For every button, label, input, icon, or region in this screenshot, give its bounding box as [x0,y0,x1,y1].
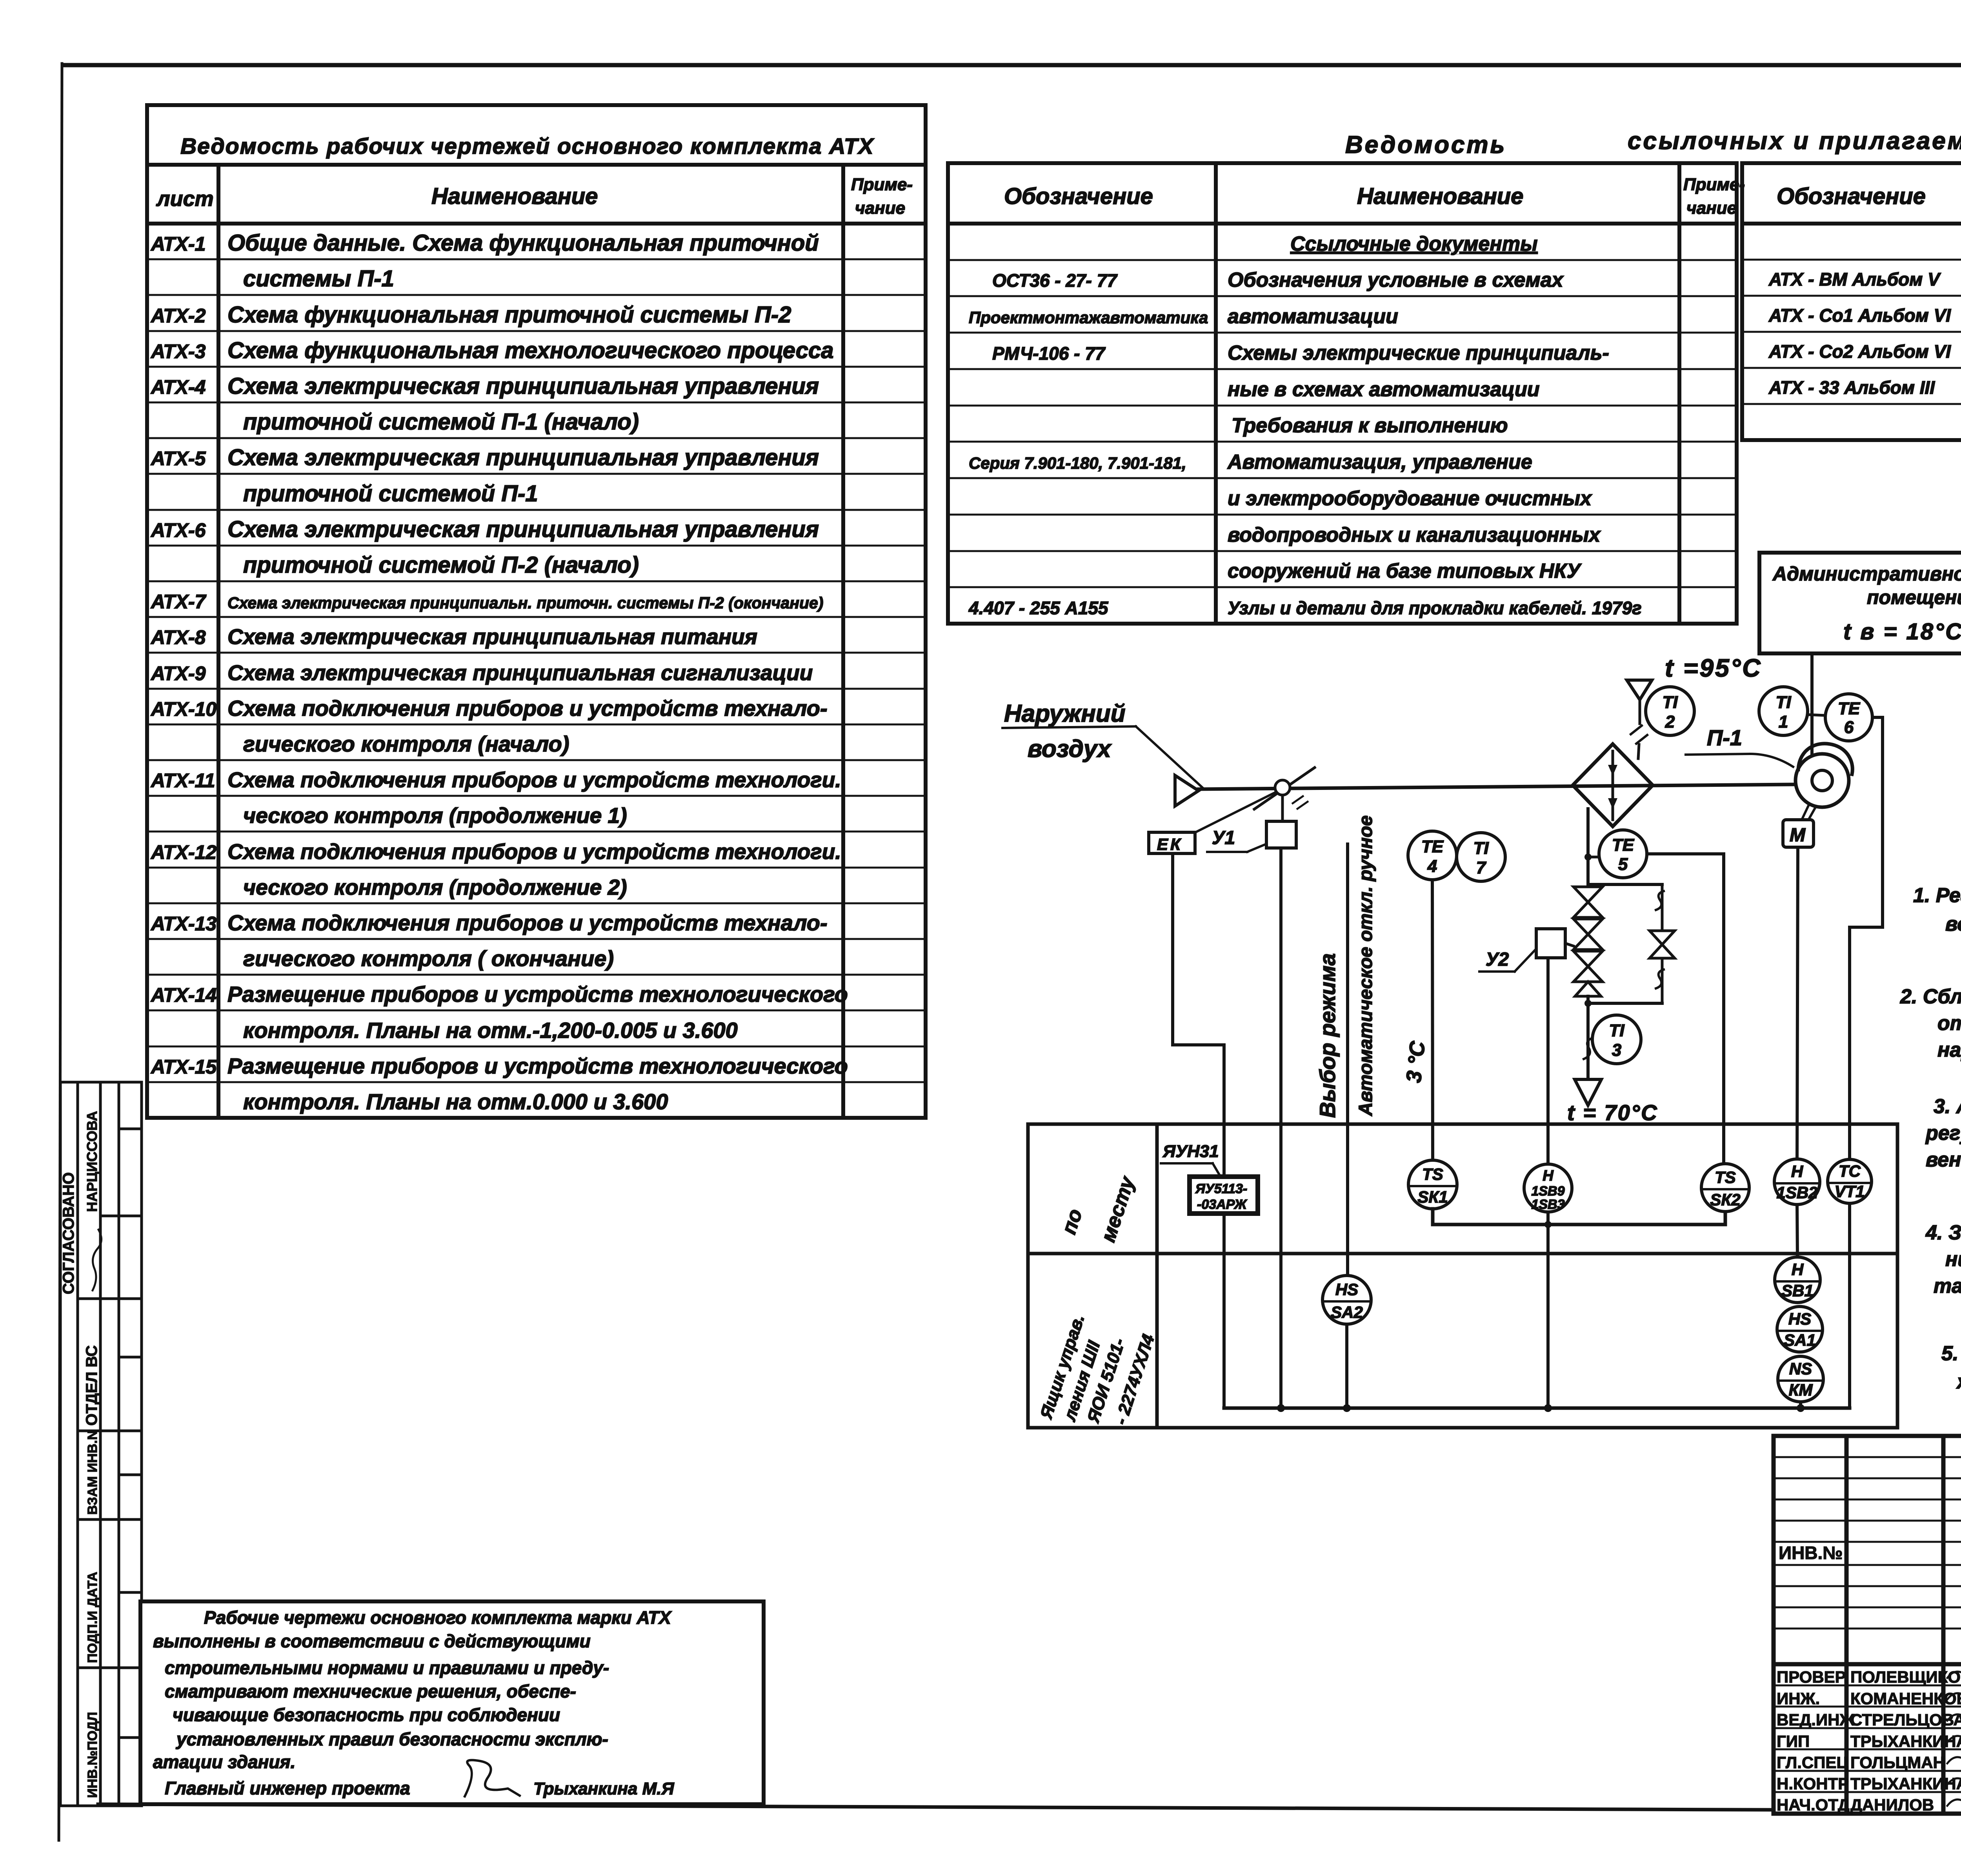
damper with hinge circle [1254,768,1315,809]
instrument TE6 [1825,694,1872,741]
svg-text:открытие (закрытие) засло: открытие (закрытие) заслонки [1937,1012,1961,1035]
svg-text:SА1: SА1 [1784,1331,1816,1349]
svg-text:системы П-1: системы П-1 [243,266,394,291]
svg-text:чание: чание [855,198,905,218]
svg-text:3 °С: 3 °С [1402,1040,1430,1084]
svg-text:4. Защита калорифера от за: 4. Защита калорифера от заморажива- [1925,1221,1961,1244]
sensor box EK [1149,832,1195,853]
svg-text:регулирования при включении: регулирования при включении приточного [1925,1122,1961,1145]
wire U2 down [1546,958,1550,1164]
actuator box U2 [1536,929,1565,958]
valve bottom arrow [1575,982,1601,996]
svg-text:М: М [1790,825,1806,846]
svg-text:приточной системой П-1 (на: приточной системой П-1 (начало) [243,409,639,435]
valve V2 [1574,919,1603,934]
svg-text:Схема подключения приборов: Схема подключения приборов и устройств т… [227,839,841,864]
instrument TI3 [1592,1015,1641,1064]
svg-text:ные в схемах автоматизации: ные в схемах автоматизации [1228,378,1540,401]
svg-text:чание: чание [1686,198,1737,218]
svg-text:КОМАНЕНКОВА: КОМАНЕНКОВА [1850,1689,1961,1708]
svg-text:гического контроля ( окончан: гического контроля ( окончание) [243,946,614,971]
title block frame [1774,1436,1961,1814]
svg-text:3: 3 [1612,1041,1621,1060]
svg-text:1: 1 [1779,712,1788,731]
wire TE5 to SK2 drop [1647,854,1724,1164]
svg-text:Рабочие чертежи основного к: Рабочие чертежи основного комплекта марк… [204,1607,672,1628]
svg-text:АТХ - ВМ Альбом V: АТХ - ВМ Альбом V [1768,269,1941,289]
instrument TE4 [1408,831,1457,880]
svg-text:ЯУН31: ЯУН31 [1162,1142,1219,1161]
svg-text:Схема функциональная технологи: Схема функциональная технологического пр… [227,338,834,363]
svg-text:ГЛ.СПЕЦ: ГЛ.СПЕЦ [1777,1753,1848,1772]
svg-text:Административно - бытовые: Административно - бытовые [1772,563,1961,585]
svg-text:5. Среда помещений невзры: 5. Среда помещений невзрыво - и непо- [1941,1342,1961,1365]
svg-text:воздух: воздух [1028,735,1112,762]
svg-text:АТХ-11: АТХ-11 [150,770,215,792]
wire M down [1797,847,1798,1159]
svg-text:5: 5 [1618,855,1628,874]
svg-text:ИНЖ.: ИНЖ. [1777,1689,1820,1708]
svg-text:АТХ-2: АТХ-2 [150,305,206,327]
svg-text:t = 70°С: t = 70°С [1567,1100,1658,1125]
svg-text:ВЕД.ИНЖ: ВЕД.ИНЖ [1777,1710,1855,1729]
svg-text:гического контроля (начало): гического контроля (начало) [243,731,569,756]
svg-text:SА2: SА2 [1331,1303,1363,1321]
wire manifold bottom [1588,1002,1662,1005]
drain triangle down [1575,1079,1601,1105]
valve V3 [1574,951,1603,966]
svg-text:Схема подключения приборов: Схема подключения приборов и устройств т… [227,910,828,935]
svg-text:выполнены в соответствии с: выполнены в соответствии с действующими [153,1631,591,1651]
wire mode selection vertical [1346,844,1349,1276]
svg-text:ЕК: ЕК [1157,835,1183,853]
instrument TS SK1 [1408,1160,1457,1209]
svg-text:У1: У1 [1212,828,1235,848]
instrument TE5 [1599,830,1647,878]
svg-text:ТІ: ТІ [1609,1021,1624,1040]
svg-text:ГОЛЬЦМАН: ГОЛЬЦМАН [1850,1753,1945,1772]
svg-text:Проектмонтажавтоматика: Проектмонтажавтоматика [969,308,1208,327]
svg-text:-03АРЖ: -03АРЖ [1197,1197,1248,1212]
svg-text:контроля. Планы на отм.0.: контроля. Планы на отм.0.000 и 3.600 [243,1089,668,1114]
svg-text:ТРЫХАНКИНА: ТРЫХАНКИНА [1850,1732,1961,1750]
svg-text:6: 6 [1844,718,1854,737]
svg-text:4: 4 [1427,857,1437,876]
svg-text:Наружний: Наружний [1004,700,1126,727]
instrument TS SK2 [1701,1164,1749,1212]
motor box M [1783,820,1814,847]
sheet frame left line [59,64,62,1840]
svg-text:установленных правил безопа: установленных правил безопасности эксплю… [176,1729,608,1749]
svg-text:4.407 - 255 А155: 4.407 - 255 А155 [968,598,1109,618]
svg-text:Ведомость: Ведомость [1345,131,1506,158]
svg-text:ИНВ.№ПОДЛ: ИНВ.№ПОДЛ [85,1712,100,1798]
svg-text:Н: Н [1543,1168,1554,1184]
svg-text:НАЧ.ОТД: НАЧ.ОТД [1777,1796,1850,1814]
svg-text:Трыханкина М.Я: Трыханкина М.Я [533,1779,674,1798]
wire admin box down to fan [1810,653,1814,757]
link fan to motor [1802,805,1809,820]
svg-text:АТХ-8: АТХ-8 [150,626,206,648]
svg-text:контроля. Планы на отм.-1,20: контроля. Планы на отм.-1,200-0.005 и 3.… [243,1018,738,1043]
box administrative rooms [1759,553,1961,653]
wire bottom bus [1224,1407,1850,1410]
svg-text:Схема электрическая принципи: Схема электрическая принципиальная сигна… [227,661,813,685]
svg-text:Схема подключения приборов: Схема подключения приборов и устройств т… [227,768,841,792]
instrument HS SA2 [1322,1276,1371,1324]
svg-text:ДАНИЛОВ: ДАНИЛОВ [1850,1796,1934,1814]
svg-text:НS: НS [1335,1280,1358,1299]
svg-text:АТХ - Со1 Альбом VI: АТХ - Со1 Альбом VI [1768,305,1951,326]
svg-text:Серия 7.901-180, 7.901-181,: Серия 7.901-180, 7.901-181, [969,454,1186,472]
svg-text:1SВ9: 1SВ9 [1531,1184,1564,1199]
svg-text:1SВ2: 1SВ2 [1776,1183,1817,1202]
svg-text:Схема электрическая принципиал: Схема электрическая принципиальн. приточ… [227,594,823,612]
svg-text:сматривают технические реш: сматривают технические решения, обеспе- [165,1681,576,1701]
instrument HS SA1 [1777,1306,1823,1352]
svg-text:АТХ-7: АТХ-7 [150,591,207,613]
svg-text:VТ1: VТ1 [1834,1182,1865,1201]
svg-text:2: 2 [1665,712,1675,731]
wire duct line [1199,784,1795,789]
svg-text:наружного воздуха.: наружного воздуха. [1937,1039,1961,1061]
wire heater supply from exchanger [1586,809,1590,884]
instrument H SB1 [1775,1257,1820,1303]
svg-text:ссылочных и прилагаемых док: ссылочных и прилагаемых документов [1628,127,1961,155]
wire H down through link [1546,1212,1550,1408]
svg-text:приточной системой П-1: приточной системой П-1 [243,481,538,506]
svg-text:Обозначения условные в схема: Обозначения условные в схемах [1228,269,1564,291]
leader damper to EK [1194,792,1275,833]
wire manifold top [1588,883,1662,886]
svg-text:ПОЛЕВЩИКОВА: ПОЛЕВЩИКОВА [1850,1668,1961,1686]
instrument NS KM [1778,1356,1823,1402]
wire TE6 right and down with jog [1850,717,1883,1159]
svg-text:РМЧ-106 - 77: РМЧ-106 - 77 [992,343,1106,364]
svg-text:сооружений на базе типовых Н: сооружений на базе типовых НКУ [1228,560,1582,582]
svg-text:Схема электрическая принципи: Схема электрическая принципиальная управ… [227,373,819,399]
svg-text:СТРЕЛЬЦОВА: СТРЕЛЬЦОВА [1850,1710,1961,1729]
svg-text:У2: У2 [1486,949,1509,970]
heat exchanger diamond [1573,744,1653,826]
svg-text:АТХ-3: АТХ-3 [150,340,206,362]
wire damper to U1 actuator [1281,795,1284,821]
vent funnel [1627,680,1652,700]
signature of chief engineer [465,1760,520,1796]
svg-text:автоматизации: автоматизации [1228,305,1398,328]
svg-text:ТРЫХАНКИНА: ТРЫХАНКИНА [1850,1774,1961,1793]
svg-text:АТХ - Со2 Альбом VI: АТХ - Со2 Альбом VI [1768,341,1951,362]
svg-text:ТІ: ТІ [1473,839,1489,858]
svg-text:АТХ-15: АТХ-15 [150,1056,217,1078]
svg-text:ГИП: ГИП [1777,1732,1810,1750]
wire TE4 down to SK1 [1432,880,1433,1160]
svg-text:Схема электрическая принципи: Схема электрическая принципиальная управ… [227,517,819,542]
svg-text:Выбор режима: Выбор режима [1315,953,1340,1118]
svg-text:Н: Н [1792,1260,1804,1279]
wire KM to bus [1799,1402,1802,1408]
svg-text:ОТДЕЛ ВС: ОТДЕЛ ВС [83,1345,100,1426]
svg-text:Обозначение: Обозначение [1777,184,1926,209]
wire EK down with jog [1173,853,1224,1408]
svg-text:приточной системой П-2 (начал: приточной системой П-2 (начало) [243,552,639,578]
instrument TI2 [1646,687,1694,735]
node manifold bottom junction [1584,1000,1592,1007]
svg-text:Узлы и детали для прокладки ка: Узлы и детали для прокладки кабелей. 197… [1228,598,1642,618]
svg-text:Требования к выполнению: Требования к выполнению [1232,414,1508,437]
control assignment table [1028,1124,1897,1428]
sheet frame bottom line [98,1804,1961,1812]
wire VT1 down to bus [1848,1203,1851,1408]
svg-text:ПРОВЕР.: ПРОВЕР. [1777,1668,1848,1686]
svg-text:Главный инженер проекта: Главный инженер проекта [165,1778,410,1798]
svg-text:помещения: помещения [1867,586,1961,608]
instrument TI7 [1457,833,1505,881]
svg-text:АТХ-9: АТХ-9 [150,662,206,684]
svg-text:SК2: SК2 [1710,1190,1740,1209]
svg-text:ТS: ТS [1422,1165,1443,1183]
svg-text:ТІ: ТІ [1775,693,1791,712]
wire TI1-TE6 link [1808,715,1825,715]
svg-text:Схема функциональная приточн: Схема функциональная приточной системы П… [227,302,791,328]
svg-text:Приме-: Приме- [1683,175,1745,194]
node junction TE5 tap [1584,853,1592,861]
svg-text:t в = 18°С: t в = 18°С [1843,619,1961,644]
svg-text:SК1: SК1 [1417,1188,1448,1206]
left strip signature [93,1230,102,1290]
svg-text:АТХ-4: АТХ-4 [150,376,206,398]
svg-text:SВ1: SВ1 [1781,1281,1814,1300]
svg-text:АТХ-5: АТХ-5 [150,448,206,469]
svg-text:НАРЦИССОВА: НАРЦИССОВА [84,1111,100,1212]
svg-text:лист: лист [156,187,214,211]
svg-text:Схема подключения приборов: Схема подключения приборов и устройств т… [227,696,828,721]
svg-text:ния при работающей и: ния при работающей и нерабо- [1945,1248,1961,1271]
svg-text:Наименование: Наименование [1357,184,1523,209]
svg-text:и электрооборудование очистны: и электрооборудование очистных [1228,487,1592,510]
svg-text:ТС: ТС [1839,1162,1861,1180]
svg-text:АТХ-10: АТХ-10 [150,698,216,720]
svg-text:ЯУ5113-: ЯУ5113- [1195,1181,1247,1196]
svg-text:Автоматическое откл. ручное: Автоматическое откл. ручное [1355,815,1376,1116]
svg-text:Автоматизация, управление: Автоматизация, управление [1227,451,1532,473]
svg-text:воздуха.: воздуха. [1945,913,1961,935]
air intake triangle [1175,775,1199,806]
svg-text:Ведомость рабочих чертежей: Ведомость рабочих чертежей основного ком… [180,134,875,159]
svg-text:водопроводных и канализацио: водопроводных и канализационных [1228,524,1601,546]
svg-text:3. Автоматическое подключени: 3. Автоматическое подключение системы [1934,1095,1961,1118]
svg-text:АТХ - 33 Альбом III: АТХ - 33 Альбом III [1768,377,1935,398]
wire heater return down [1586,1003,1590,1077]
svg-text:вентилятора.: вентилятора. [1926,1148,1961,1171]
svg-text:Обозначение: Обозначение [1004,184,1153,209]
svg-text:КМ: КМ [1789,1381,1813,1399]
svg-text:NS: NS [1789,1359,1812,1378]
wire U1 down to bus [1279,848,1282,1408]
svg-text:ческого контроля (продолжени: ческого контроля (продолжение 1) [243,803,627,828]
svg-text:Общие данные. Схема функциона: Общие данные. Схема функциональная прито… [227,230,819,256]
svg-text:ПОДП.И ДАТА: ПОДП.И ДАТА [85,1572,100,1663]
svg-text:Приме-: Приме- [851,175,913,194]
instrument TI1 [1759,687,1808,735]
table: worksheet list (Ведомость рабочих чертежей) [147,105,926,1118]
instrument TC VT1 [1828,1159,1872,1203]
svg-text:АТХ-6: АТХ-6 [150,519,206,541]
svg-text:ВЗАМ ИНВ.N: ВЗАМ ИНВ.N [85,1430,100,1515]
svg-text:1SВ3: 1SВ3 [1531,1197,1564,1212]
svg-text:ИНВ.№: ИНВ.№ [1779,1543,1843,1563]
sheet frame top line [63,63,1961,67]
svg-text:СОГЛАСОВАНО: СОГЛАСОВАНО [60,1172,77,1294]
svg-text:1. Регулирование температур: 1. Регулирование температуры приточного [1913,884,1961,907]
node bus junctions [1277,1404,1285,1412]
svg-text:Размещение приборов и устройс: Размещение приборов и устройств технолог… [227,1054,848,1078]
wire HS SA2 to bus [1345,1324,1348,1408]
svg-text:Н.КОНТР: Н.КОНТР [1777,1774,1849,1793]
svg-text:Схема электрическая принципи: Схема электрическая принципиальная управ… [227,445,819,470]
wire SK1 bottom link [1433,1209,1725,1225]
control box ЯУ5113-03АРЖ [1190,1177,1258,1214]
svg-text:АТХ-1: АТХ-1 [150,233,206,255]
svg-text:чивающие безопасность при: чивающие безопасность при соблюдении [173,1705,560,1725]
statement box bottom-left [140,1601,764,1804]
svg-text:АТХ-12: АТХ-12 [150,841,216,863]
valve V1 [1574,887,1603,902]
svg-text:НS: НS [1788,1310,1811,1328]
svg-text:атации здания.: атации здания. [153,1752,295,1772]
thermowell mark [1584,1038,1593,1059]
svg-text:ТІ: ТІ [1662,693,1678,712]
svg-text:Схемы электрические принципи: Схемы электрические принципиаль- [1228,342,1609,364]
wire 1SB2 chain down [1797,1205,1797,1257]
svg-text:АТХ-13: АТХ-13 [150,913,216,935]
svg-text:Н: Н [1791,1162,1804,1181]
table: attached documents (Прилагаемые документы) [1742,163,1961,440]
svg-text:ТЕ: ТЕ [1421,837,1444,856]
table: reference documents (Ссылочные документы) [948,163,1737,624]
svg-text:Размещение приборов и устройс: Размещение приборов и устройств технолог… [227,982,848,1006]
svg-text:Наименование: Наименование [431,184,598,209]
svg-text:ческого контроля (продолжени: ческого контроля (продолжение 2) [243,875,627,899]
fan П-1 (centrifugal) [1795,754,1849,807]
svg-text:Ссылочные документы: Ссылочные документы [1290,233,1537,255]
svg-text:2. Сблокированное с приточны: 2. Сблокированное с приточным вентилятор… [1900,985,1961,1008]
svg-text:ТЕ: ТЕ [1612,835,1635,855]
svg-text:строительными нормами и пра: строительными нормами и правилами и пред… [165,1658,609,1678]
svg-text:t =95°С: t =95°С [1665,654,1762,682]
actuator box U1 [1266,821,1296,848]
svg-text:7: 7 [1476,858,1487,877]
svg-text:ОСТ36 - 27- 77: ОСТ36 - 27- 77 [992,270,1118,291]
bypass branch with valve [1661,884,1664,1003]
svg-text:АТХ-14: АТХ-14 [150,984,216,1006]
instrument H 1SB9 1SB3 [1524,1164,1572,1212]
svg-text:П-1: П-1 [1707,725,1742,750]
svg-text:Схема электрическая принципи: Схема электрическая принципиальная питан… [227,624,757,649]
svg-text:ТЕ: ТЕ [1838,699,1861,718]
left stamp strip box [60,1082,142,1806]
instrument H 1SB2 [1774,1159,1820,1205]
svg-text:ТS: ТS [1715,1168,1736,1186]
svg-text:тающей системе.: тающей системе. [1934,1275,1961,1297]
